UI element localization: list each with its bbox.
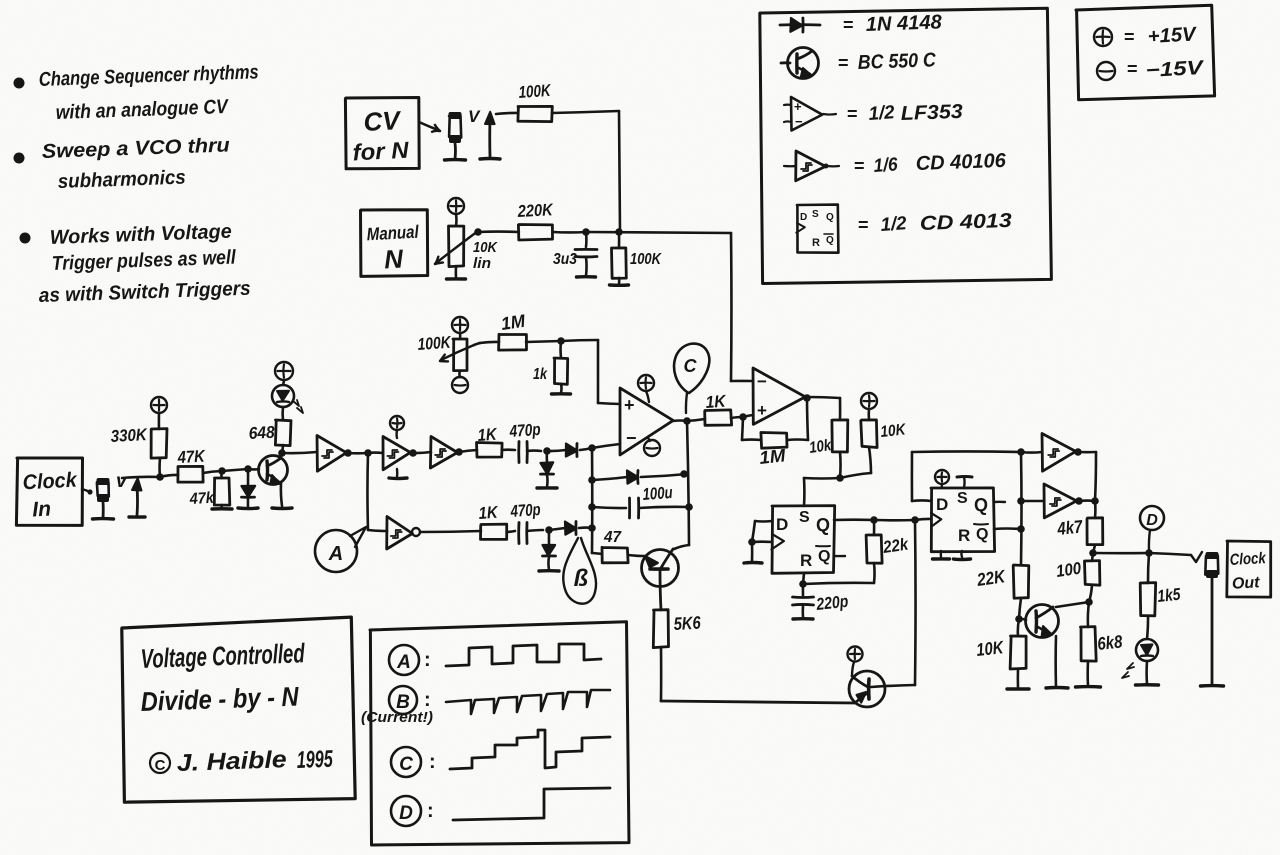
power -15V for P2	[452, 377, 468, 393]
svg-text:D: D	[800, 212, 807, 223]
wire branch node down	[366, 453, 369, 530]
title copyright	[150, 753, 170, 773]
resistor R5 47K series	[178, 466, 203, 482]
svg-text:D: D	[399, 803, 413, 824]
wire jack to resistor 100K R1	[496, 113, 518, 114]
wire sum node	[586, 232, 731, 233]
svg-text:10K: 10K	[975, 637, 1006, 660]
svg-text:1M: 1M	[758, 445, 787, 468]
FF1 D/CLK to ground	[751, 542, 754, 562]
wire R11 to junction	[526, 341, 561, 342]
diode D7 feedback	[592, 477, 627, 480]
junction R4	[156, 473, 164, 481]
svg-text:A: A	[396, 652, 411, 673]
op-amp U2	[753, 368, 805, 424]
legend diode symbol	[780, 23, 820, 26]
power -15V U1	[644, 440, 660, 456]
power +15V for R17	[861, 393, 877, 409]
FF1 D input wire grounded	[755, 520, 772, 523]
svg-text:1K: 1K	[477, 425, 499, 445]
svg-text:R: R	[812, 237, 820, 249]
svg-text:D: D	[776, 515, 788, 534]
svg-text:+: +	[794, 99, 802, 114]
junction U3B output	[409, 449, 417, 457]
U3B ground	[396, 469, 399, 477]
Q2 collector to R13	[660, 570, 661, 610]
output arrow tick	[1191, 552, 1202, 562]
svg-text:A: A	[328, 543, 343, 565]
svg-text:S: S	[812, 209, 819, 220]
waveform C staircase	[450, 730, 610, 769]
P1 wiper arrow	[436, 231, 478, 263]
wire node to diode D1	[222, 469, 248, 471]
legend flip-flop symbol CD4013	[797, 205, 838, 253]
node B balloon	[563, 538, 596, 604]
svg-text:−15V: −15V	[1145, 57, 1205, 82]
flip-flop U5A CD4013 FF1	[772, 506, 835, 574]
junction D tap	[1145, 549, 1153, 557]
svg-text:N: N	[383, 243, 405, 274]
legend box	[760, 8, 1052, 283]
junction U3E output	[1074, 448, 1082, 456]
junction Qbar node	[1017, 525, 1025, 533]
schmitt inverter U3E	[1042, 434, 1076, 472]
wire C2 to node	[527, 449, 541, 452]
wire Qbar vertical	[1020, 452, 1023, 565]
svg-text:V: V	[468, 107, 481, 126]
svg-text:1995: 1995	[296, 746, 333, 774]
power +15V for FF2	[935, 470, 949, 484]
wire integrator node to R10	[592, 553, 602, 554]
svg-text:Q: Q	[976, 526, 988, 543]
FF1 Qbar stub	[834, 555, 845, 557]
power +15V for potentiometer P1	[448, 198, 464, 214]
wire R16 to S node	[839, 452, 842, 478]
resistor R10 47	[602, 547, 628, 563]
resistor R1 100K	[518, 106, 552, 121]
svg-text:J. Haible: J. Haible	[176, 746, 287, 777]
Q1 emitter to ground	[281, 483, 282, 506]
svg-text:C: C	[155, 757, 166, 774]
op-amp U1 comparator	[620, 388, 673, 455]
svg-text:=: =	[854, 156, 865, 176]
node D balloon	[1140, 506, 1164, 530]
junction U3F output	[1075, 497, 1083, 505]
box Manual N	[361, 210, 428, 277]
svg-text::: :	[424, 689, 431, 711]
junction R6	[218, 467, 226, 475]
resistor R24 1k5	[1148, 553, 1149, 583]
LED D2 clock indicator	[281, 407, 284, 420]
node C waveform label	[391, 747, 421, 777]
box Clock Out	[1227, 541, 1271, 597]
svg-text:=: =	[847, 104, 858, 124]
svg-text:Divide - by - N: Divide - by - N	[140, 681, 299, 717]
LED D8 light arrows	[1122, 663, 1134, 678]
resistor R4 330K pullup	[158, 413, 161, 429]
wire S node to FF1 S input	[804, 477, 840, 480]
svg-text:648: 648	[248, 423, 275, 443]
FF2 S tie symbol	[957, 475, 972, 478]
svg-text:R: R	[958, 526, 970, 545]
potentiometer P2 100K body	[459, 333, 462, 339]
title box	[122, 617, 355, 802]
capacitor C2 470p	[517, 442, 520, 463]
junction top pump node	[543, 447, 551, 455]
junction bottom pump node	[545, 526, 553, 534]
resistor R17 10K	[867, 409, 870, 420]
svg-text:+: +	[757, 401, 767, 420]
resistor R18 22k	[873, 520, 876, 535]
FF2 ground pins	[940, 551, 943, 557]
wire U2 output to R16	[805, 397, 840, 398]
resistor R9 1K	[481, 524, 507, 539]
svg-text:=: =	[1124, 27, 1135, 47]
jack J3 clock output	[1205, 556, 1218, 575]
power +15V for LED D2	[275, 362, 293, 380]
U1 non-inverting input wire from offset network	[597, 340, 600, 403]
node after P1 wiper	[474, 228, 482, 236]
resistor R2 220K	[518, 225, 552, 241]
svg-text:470p: 470p	[508, 420, 541, 441]
svg-text:S: S	[957, 490, 968, 507]
resistor R14 1K to U2+	[687, 419, 705, 421]
junction R18 tap	[870, 516, 878, 524]
node B waveform label	[389, 686, 417, 714]
node C balloon	[674, 344, 709, 393]
svg-text:1k: 1k	[533, 366, 548, 383]
transistor Q2 BC550C pump	[642, 550, 679, 587]
svg-text:−: −	[795, 114, 803, 129]
svg-text:=: =	[858, 215, 869, 235]
svg-text:22k: 22k	[881, 534, 911, 557]
svg-text:100u: 100u	[642, 483, 674, 504]
note bullet 1	[14, 78, 25, 89]
svg-text:6k8: 6k8	[1096, 631, 1123, 654]
waveform box	[370, 622, 629, 845]
waveform A square wave	[446, 644, 601, 666]
diode D3 to ground	[545, 451, 548, 462]
wire branch node to U3B	[368, 451, 383, 454]
transistor Q1 BC550C	[259, 456, 288, 485]
power +15V for R4	[151, 397, 167, 413]
svg-text:BC 550 C: BC 550 C	[857, 49, 936, 74]
capacitor C4 100u integrator	[592, 507, 626, 508]
FF2 Qbar output wire	[994, 527, 1021, 530]
legend +15V symbol	[1094, 28, 1112, 46]
svg-text:LF353: LF353	[900, 101, 963, 125]
resistor R20 10K	[1018, 619, 1019, 636]
svg-text:CD 40106: CD 40106	[915, 150, 1007, 175]
junction output node	[1089, 549, 1097, 557]
junction U3C output	[455, 448, 463, 456]
P1 to ground	[455, 266, 458, 278]
junction Q1 collector	[278, 449, 286, 457]
wire Qbar to U3E	[1021, 451, 1042, 454]
resistor R21 4k7	[1094, 501, 1097, 518]
node A waveform label	[389, 645, 419, 675]
wire U3E output down	[1078, 451, 1096, 454]
legend op-amp symbol	[791, 97, 822, 131]
power legend box	[1076, 5, 1215, 99]
junction feedback diode tap	[588, 476, 596, 484]
wire clock input	[122, 477, 160, 478]
resistor R22 100	[1092, 553, 1093, 561]
junction offset node	[557, 337, 565, 345]
svg-text:3u3: 3u3	[553, 251, 577, 268]
svg-text:lin: lin	[473, 255, 491, 272]
jack J2 clock input	[97, 482, 109, 496]
resistor R13 5K6	[653, 610, 668, 648]
svg-text:47k: 47k	[188, 490, 215, 508]
wire R9 to C3	[507, 531, 515, 532]
wire integrator node vertical	[591, 448, 594, 553]
jack J1 CV input	[449, 116, 461, 138]
capacitor C1 3u3	[585, 232, 588, 247]
potentiometer P1 10K lin body	[449, 226, 464, 267]
diode D1 clamp to ground	[247, 469, 250, 485]
svg-text:47: 47	[603, 529, 622, 546]
wire to op-amp U1 inverting input	[592, 444, 620, 448]
wire R10 to Q2 emitter	[628, 555, 646, 556]
svg-text:Clock: Clock	[1229, 550, 1267, 569]
svg-text:C: C	[684, 356, 698, 376]
svg-text:4k7: 4k7	[1056, 516, 1085, 539]
svg-text:1/2: 1/2	[880, 213, 908, 236]
schmitt trigger U3B	[383, 437, 410, 470]
FF2 D feedback wire from Qbar	[912, 499, 931, 502]
waveform B sawtooth spikes	[446, 690, 610, 714]
resistor R3 100K to ground	[618, 232, 621, 248]
svg-text::: :	[427, 800, 434, 822]
resistor R15 1M feedback	[742, 417, 743, 440]
wire U3A to branch node	[348, 452, 368, 455]
svg-text:Q: Q	[974, 495, 988, 515]
svg-text:330K: 330K	[110, 425, 148, 446]
resistor R12 1k to ground	[559, 341, 562, 358]
svg-text:=: =	[843, 15, 854, 35]
wire C3 to node	[527, 530, 543, 531]
power +15V for U3B	[390, 416, 404, 430]
LED D2 light arrows	[293, 400, 303, 413]
clock input arrow symbol	[136, 486, 139, 515]
svg-text:22K: 22K	[975, 566, 1008, 590]
junction Qbar node mid	[1017, 497, 1025, 505]
wire U3C to R8	[459, 450, 477, 452]
resistor R23 6k8	[1088, 602, 1089, 627]
junction Q5 base node	[1015, 615, 1023, 623]
svg-text:Out: Out	[1232, 574, 1261, 592]
wire FF1 Q to FF2 CLK	[874, 519, 915, 522]
waveform D step	[453, 788, 610, 820]
wire R5 to node	[160, 475, 178, 477]
wire U3D to R9	[420, 531, 481, 532]
wire sum node to op-amp U2 inverting input	[730, 233, 733, 381]
legend schmitt inverter symbol	[784, 165, 796, 167]
svg-text:+: +	[624, 395, 635, 415]
junction FF1 D/CLK ground	[748, 538, 756, 546]
svg-text:1M: 1M	[500, 311, 527, 334]
wire to transistor Q1 base	[248, 468, 259, 471]
svg-text:D: D	[1146, 512, 1158, 529]
svg-text:D: D	[936, 495, 948, 514]
svg-text:100K: 100K	[518, 81, 553, 102]
svg-text:1k5: 1k5	[1156, 585, 1181, 606]
junction 3u3	[582, 228, 590, 236]
svg-text:Manual: Manual	[366, 222, 420, 245]
wire FF1 Q down to Q3 base	[914, 520, 917, 685]
input arrow symbol	[488, 118, 491, 157]
svg-text:1/2: 1/2	[868, 102, 896, 125]
svg-text:−: −	[757, 372, 767, 391]
box CV for N	[345, 98, 419, 169]
resistor R16 10k	[839, 398, 842, 420]
diode D4 series	[547, 450, 566, 451]
svg-text:C: C	[399, 754, 413, 775]
junction U2+ input	[731, 417, 743, 418]
svg-text:=: =	[1127, 59, 1138, 79]
resistor R6 47k to ground	[220, 471, 223, 478]
svg-text:100: 100	[1055, 559, 1083, 581]
wire to inverter U3D	[368, 530, 387, 531]
junction U3 outputs join	[1091, 497, 1099, 505]
svg-text:1K: 1K	[478, 503, 500, 523]
junction Qbar node top	[1017, 448, 1025, 456]
svg-text:In: In	[32, 498, 52, 522]
svg-text:R: R	[800, 551, 812, 570]
schmitt trigger U3C	[430, 437, 457, 469]
schmitt trigger U3A	[317, 436, 346, 472]
diode D5 to ground	[548, 530, 551, 544]
box Clock In	[16, 458, 82, 525]
svg-text:=: =	[838, 53, 849, 73]
wire R17 to S node	[869, 447, 871, 473]
svg-text:Q: Q	[818, 548, 830, 565]
wire R2 to summing node	[553, 231, 586, 234]
FF2 Q stub	[994, 501, 1005, 504]
svg-text:47K: 47K	[176, 447, 206, 468]
svg-text:10K: 10K	[473, 239, 498, 256]
junction FF1 R node	[799, 580, 807, 588]
resistor R8 1K	[477, 443, 503, 458]
junction cap to output line	[685, 503, 693, 511]
transistor Q3 BC550C	[849, 671, 885, 707]
wire Q5 base	[1019, 619, 1026, 620]
svg-text:1N 4148: 1N 4148	[865, 11, 943, 36]
wire R1 to node N-sum	[552, 111, 619, 113]
svg-text:5K6: 5K6	[673, 613, 702, 634]
svg-text:ß: ß	[574, 565, 589, 592]
svg-text:1/6: 1/6	[873, 154, 899, 177]
power +15V U1	[638, 375, 654, 391]
wire offset node to U1+	[561, 340, 598, 341]
power +15V for P2	[452, 317, 468, 333]
wire R18 to FF1 R	[873, 563, 876, 583]
transistor Q5 BC550C output	[1026, 605, 1059, 638]
wire Qbar to U3F	[1021, 500, 1044, 503]
schmitt inverter U3D	[387, 517, 413, 550]
junction U2 output	[803, 394, 811, 402]
junction D1	[244, 465, 252, 473]
svg-text::: :	[424, 649, 431, 671]
wire P2 wiper to R11	[474, 343, 480, 345]
svg-text:220K: 220K	[516, 200, 554, 221]
svg-text:+15V: +15V	[1147, 23, 1198, 48]
svg-text:10k: 10k	[808, 437, 833, 457]
wire U1 output down	[687, 421, 689, 545]
Q5 emitter to ground	[1054, 636, 1057, 687]
LED D8 output indicator	[1147, 616, 1148, 639]
junction feedback diode to output line	[680, 470, 688, 478]
junction Q5 collector node	[1089, 585, 1092, 602]
svg-text:subharmonics: subharmonics	[57, 167, 186, 193]
wire R21 to output node	[1093, 545, 1095, 553]
note bullet 2	[14, 153, 25, 164]
junction S drive node	[836, 474, 844, 482]
node D waveform label	[391, 796, 421, 826]
resistor R11 1M	[499, 334, 527, 350]
svg-text:Q: Q	[816, 515, 830, 535]
P2 wiper arrow	[441, 345, 474, 360]
legend transistor symbol BC550C	[781, 61, 790, 64]
resistor R7 648 collector load	[282, 445, 283, 453]
capacitor C3 470p	[517, 523, 520, 544]
resistor R19 22K	[1013, 565, 1029, 598]
svg-text:10K: 10K	[880, 421, 908, 441]
svg-text:(Current!): (Current!)	[361, 709, 433, 726]
FF1 R pin wire	[803, 573, 804, 584]
note bullet 3	[20, 233, 31, 244]
svg-text::: :	[429, 751, 436, 773]
svg-text:100K: 100K	[417, 333, 453, 354]
junction CV/manual sum node	[615, 228, 623, 236]
svg-text:Clock: Clock	[22, 469, 78, 495]
svg-text:Q: Q	[826, 235, 834, 246]
junction bottom node on integrator line	[588, 524, 596, 532]
svg-text:S: S	[799, 509, 810, 526]
node A balloon	[315, 530, 357, 572]
junction integrator input node	[588, 444, 596, 452]
wire output line	[1093, 552, 1149, 555]
svg-text:Voltage Controlled: Voltage Controlled	[140, 638, 305, 674]
svg-text:v: v	[116, 471, 128, 492]
svg-text:−: −	[626, 428, 637, 448]
svg-text:1K: 1K	[705, 392, 728, 412]
wire Q1 collector to schmitt U3A	[282, 452, 317, 453]
flip-flop U5B CD4013 FF2	[931, 488, 995, 552]
svg-text:Q: Q	[826, 212, 834, 223]
diode D6 series	[549, 528, 565, 530]
svg-text:220p: 220p	[815, 592, 850, 614]
arrow from CV box to jack J1	[419, 122, 438, 130]
FF1 CLK input wire	[752, 540, 772, 543]
wire P1 to R2	[478, 230, 519, 233]
FF1 Q output wire	[834, 518, 874, 521]
svg-text:CV: CV	[363, 105, 403, 137]
wire Q5 collector to output node	[1056, 602, 1089, 607]
Q1 collector wire	[281, 453, 282, 458]
junction branch node	[364, 449, 372, 457]
svg-text:CD 4013: CD 4013	[919, 210, 1012, 235]
power +15V for Q3	[848, 647, 863, 662]
junction cap tap	[588, 503, 596, 511]
arrow Clock In to jack J2	[82, 489, 90, 492]
wire R13 to Q3 emitter (bottom rail)	[660, 647, 663, 701]
capacitor C5 220p	[802, 584, 805, 596]
schmitt inverter U3F	[1044, 484, 1077, 518]
wire R8 to C2	[502, 448, 515, 451]
legend -15V symbol	[1097, 62, 1115, 80]
